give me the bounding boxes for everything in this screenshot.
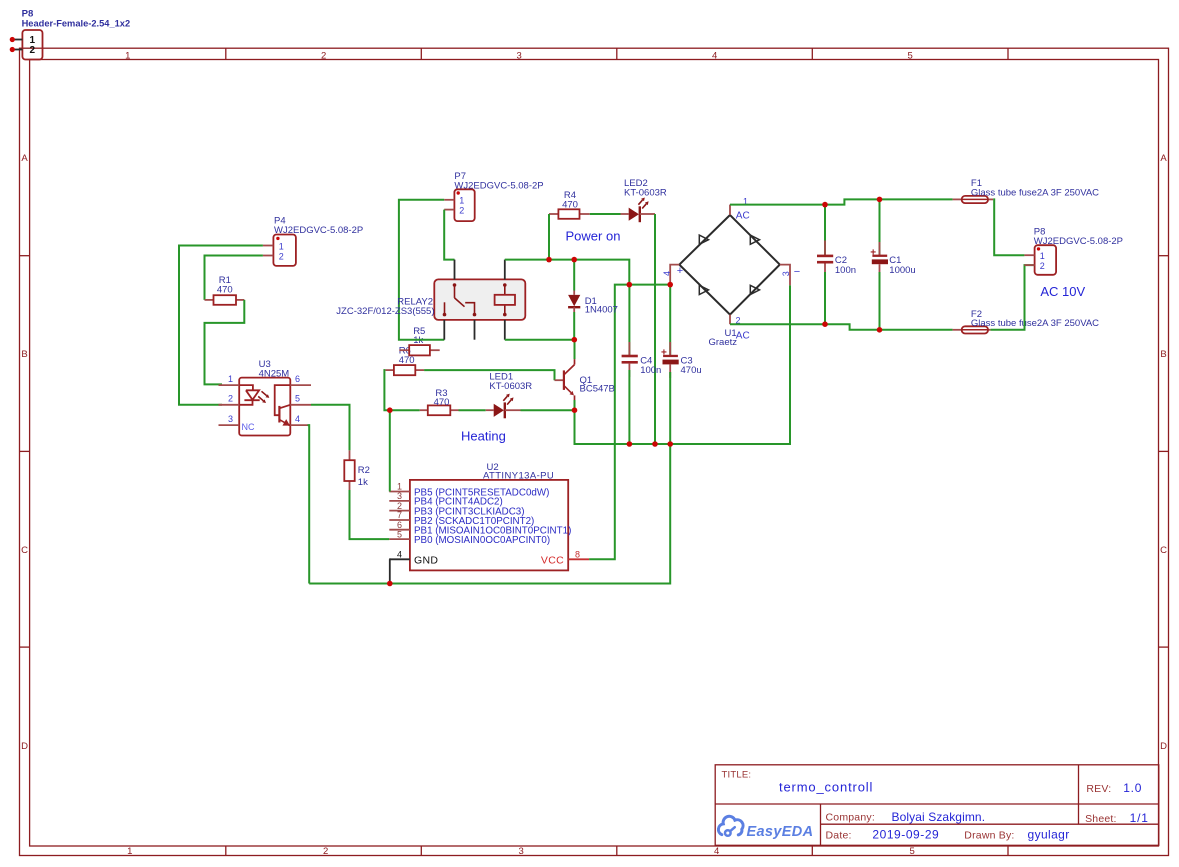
junction D1/VCC rail (571, 257, 577, 263)
U3 phototransistor (275, 385, 291, 425)
junction C2 bottom (822, 321, 828, 327)
svg-text:2: 2 (30, 45, 36, 56)
svg-text:1000u: 1000u (889, 265, 915, 276)
junction C3 top / bridge + (667, 282, 673, 288)
connector P4 (273, 215, 363, 266)
svg-text:1k: 1k (358, 477, 368, 488)
svg-text:2: 2 (321, 50, 326, 61)
junction C4 top / VCC rail (627, 282, 633, 288)
U2 pin 7 PB2 (389, 510, 534, 527)
svg-text:Graetz: Graetz (709, 337, 738, 348)
svg-text:7: 7 (397, 510, 402, 520)
junction C3 bottom / GND rails (667, 441, 673, 447)
U2 pin 4 GND (389, 550, 438, 567)
svg-text:−: − (794, 266, 800, 278)
svg-text:WJ2EDGVC-5.08-2P: WJ2EDGVC-5.08-2P (1034, 236, 1123, 247)
svg-text:TITLE:: TITLE: (722, 770, 752, 781)
wire R6 to junction (384, 370, 389, 410)
wire U3.5 to R2 (311, 405, 350, 451)
svg-text:ATTINY13A-PU: ATTINY13A-PU (483, 470, 554, 481)
U1 pin 4 + output (662, 265, 683, 285)
svg-text:2: 2 (323, 846, 328, 857)
pin 2 of P7 (444, 205, 464, 215)
U3 internal LED (239, 385, 260, 405)
svg-text:NC: NC (242, 422, 255, 432)
svg-text:470u: 470u (681, 365, 702, 376)
svg-text:Header-Female-2.54_1x2: Header-Female-2.54_1x2 (22, 19, 131, 29)
svg-text:3: 3 (781, 271, 791, 276)
MCU U2 ATTINY13A-PU (410, 462, 568, 570)
junction C4 bottom / GND rail (627, 441, 633, 447)
svg-text:5: 5 (397, 529, 402, 539)
svg-text:C: C (1160, 545, 1167, 556)
svg-text:2: 2 (1040, 261, 1045, 271)
svg-text:8: 8 (575, 550, 580, 560)
pin 1 of P4 (263, 241, 284, 251)
svg-text:KT-0603R: KT-0603R (489, 381, 532, 392)
U1 pin 3 - output (780, 265, 800, 286)
wire junction to R3 (390, 409, 420, 411)
junction C1 top (877, 197, 883, 203)
optocoupler U3 4N25M (239, 359, 290, 435)
relay NC contact (443, 302, 447, 316)
pin 1 of right P8 (1024, 251, 1044, 261)
relay pin top-left (454, 260, 456, 280)
connector P8 (Header-Female-2.54_1x2) (22, 8, 131, 59)
transistor Q1 BC547B (555, 359, 615, 400)
capacitor C3 470u electrolytic (661, 285, 702, 444)
pin 2 of P8 (10, 45, 36, 56)
resistor R6 470 (385, 346, 424, 376)
wire U2.4 GND down (388, 559, 391, 583)
svg-text:A: A (21, 153, 28, 164)
resistor R3 470 (420, 388, 459, 415)
svg-text:1.0: 1.0 (1123, 781, 1142, 795)
svg-text:1: 1 (127, 846, 132, 857)
connector P7 (454, 171, 543, 221)
svg-text:470: 470 (399, 355, 415, 366)
U3 pin 3 (NC) (219, 414, 255, 432)
svg-text:Glass tube fuse2A 3F 250VAC: Glass tube fuse2A 3F 250VAC (971, 318, 1099, 329)
svg-text:100n: 100n (835, 265, 856, 276)
relay pin bottom-middle (474, 320, 476, 340)
junction R4/VCC rail (546, 257, 552, 263)
svg-text:Drawn By:: Drawn By: (964, 830, 1014, 842)
net label Heating (461, 429, 506, 444)
svg-text:Glass tube fuse2A 3F 250VAC: Glass tube fuse2A 3F 250VAC (971, 187, 1099, 198)
pin 1 of P7 (444, 196, 464, 206)
junction R6/R3/U2.1 (387, 407, 393, 413)
U2 pin 8 VCC (541, 550, 589, 567)
wire P4.2 to R1 (205, 256, 263, 300)
capacitor C2 100n (817, 205, 856, 325)
svg-text:3: 3 (397, 491, 402, 501)
svg-text:+: + (677, 265, 683, 277)
resistor R1 470 (205, 275, 245, 305)
net label Power on (566, 229, 621, 244)
relay coil (495, 283, 515, 316)
wire relay coil bottom to D1 (505, 339, 575, 341)
U1 pin 2 AC bottom (730, 315, 750, 342)
U3 pin 5 (290, 394, 311, 405)
U3 pin 2 (219, 394, 240, 405)
svg-text:KT-0603R: KT-0603R (624, 187, 667, 198)
svg-text:5: 5 (908, 50, 913, 61)
pin 2 of right P8 (1024, 261, 1044, 271)
junction C1 bottom (877, 327, 883, 333)
svg-text:Power on: Power on (566, 229, 621, 244)
svg-text:WJ2EDGVC-5.08-2P: WJ2EDGVC-5.08-2P (274, 225, 363, 236)
svg-text:1: 1 (125, 50, 130, 61)
wire U3.4 to GND rail (308, 425, 310, 583)
bridge rectifier U1 Graetz (679, 215, 780, 348)
svg-text:JZC-32F/012-ZS3(555): JZC-32F/012-ZS3(555) (336, 306, 434, 317)
relay contact armature (453, 283, 477, 316)
U1 pin 1 AC top (730, 196, 750, 221)
wire R3 to LED1 (459, 409, 486, 411)
U2 pin 3 PB4 (389, 491, 502, 508)
svg-text:100n: 100n (640, 365, 661, 376)
wire P7.2 to relay common pin (444, 210, 454, 260)
wire emitter junction to GND rail (575, 285, 791, 444)
svg-text:PB0 (MOSIAIN0OC0APCINT0): PB0 (MOSIAIN0OC0APCINT0) (414, 535, 550, 546)
LED LED1 KT-0603R (486, 372, 533, 419)
U2 pin 2 PB3 (389, 501, 524, 518)
pin 1 of P8 (10, 35, 36, 46)
svg-text:3: 3 (518, 846, 523, 857)
wire U2.8 VCC up (589, 285, 670, 560)
svg-text:470: 470 (434, 397, 450, 408)
svg-text:4: 4 (295, 414, 300, 424)
wire F1 to P8.1 (993, 199, 1024, 255)
svg-text:REV:: REV: (1086, 783, 1111, 795)
svg-text:Company:: Company: (826, 811, 875, 823)
svg-text:EasyEDA: EasyEDA (747, 824, 814, 840)
svg-text:gyulagr: gyulagr (1028, 828, 1070, 842)
svg-text:BC547B: BC547B (580, 384, 615, 395)
net label AC 10V (1040, 284, 1085, 299)
wire P4.1 to U3.2 (179, 246, 263, 405)
relay pin bottom-left NC (443, 320, 445, 340)
svg-text:D: D (21, 741, 28, 752)
wire junction to U2.1 (389, 410, 391, 491)
svg-text:termo_controll: termo_controll (779, 780, 873, 795)
svg-text:1: 1 (459, 196, 464, 206)
relay pin top-right coil (504, 260, 506, 280)
junction U2 GND (387, 581, 393, 587)
svg-text:1: 1 (228, 374, 233, 384)
svg-text:3: 3 (228, 414, 233, 424)
svg-text:VCC: VCC (541, 554, 564, 566)
wire AC bottom rail: U1.2 to F2 (730, 324, 953, 330)
wire D1 anode to VCC rail (573, 260, 575, 291)
svg-text:R2: R2 (358, 465, 370, 476)
wire R4 to LED2 (590, 213, 621, 215)
wire D1 cathode to coil rail (573, 312, 575, 340)
junction D1/coil/Q1 (572, 337, 578, 343)
svg-text:WJ2EDGVC-5.08-2P: WJ2EDGVC-5.08-2P (454, 180, 543, 191)
fuse F2 Glass tube fuse2A 3F 250VAC (953, 309, 1100, 334)
svg-text:4N25M: 4N25M (259, 368, 290, 379)
wire R1 to U3.1 (205, 300, 245, 385)
junction C2 top (822, 202, 828, 208)
svg-text:3: 3 (516, 50, 521, 61)
junction Q1 emitter / LED1 (572, 407, 578, 413)
fuse F1 Glass tube fuse2A 3F 250VAC (953, 178, 1100, 203)
junction LED2 / GND rail (652, 441, 658, 447)
wire F2 to P8.2 (991, 265, 1035, 330)
svg-text:5: 5 (295, 394, 300, 404)
svg-text:D: D (1160, 741, 1167, 752)
svg-text:GND: GND (414, 554, 438, 566)
U2 pin 1 PB5 (389, 482, 549, 499)
svg-text:Bolyai Szakgimn.: Bolyai Szakgimn. (892, 810, 986, 824)
U3 light arrows (258, 391, 269, 403)
wire R6 to Q1 base (424, 370, 554, 380)
svg-text:1N4007: 1N4007 (585, 305, 618, 316)
svg-text:AC: AC (736, 331, 750, 342)
svg-text:A: A (1160, 153, 1167, 164)
relay pin bottom-right coil (504, 320, 506, 340)
LED LED2 KT-0603R (621, 178, 667, 222)
svg-text:2: 2 (228, 394, 233, 404)
diode D1 1N4007 (568, 291, 618, 316)
U2 pin 6 PB1 (389, 520, 571, 537)
wire Q1 emitter down (574, 400, 576, 410)
wire LED1 to Q1 emitter junction (521, 409, 575, 411)
pin 2 of P4 (263, 251, 284, 261)
svg-text:C: C (21, 545, 28, 556)
svg-text:2019-09-29: 2019-09-29 (872, 828, 939, 842)
resistor R2 1k (vertical) (344, 450, 370, 490)
resistor R5 1k (399, 326, 439, 355)
svg-text:5: 5 (910, 846, 915, 857)
U3 pin 6 (290, 374, 311, 385)
U3 pin 1 (219, 374, 240, 385)
svg-text:B: B (1160, 349, 1166, 360)
svg-text:B: B (21, 349, 27, 360)
svg-text:Sheet:: Sheet: (1085, 813, 1117, 825)
wire Q1 collector up (574, 340, 576, 359)
svg-text:Date:: Date: (826, 830, 852, 842)
wire AC top rail: U1.1 to F1 to P8.1 (730, 199, 953, 204)
wire LED2 to GND rail (654, 214, 656, 444)
svg-text:AC 10V: AC 10V (1040, 284, 1085, 299)
svg-text:4: 4 (397, 550, 402, 560)
wire GND rail (309, 444, 670, 584)
svg-text:AC: AC (736, 211, 750, 222)
svg-text:1: 1 (279, 241, 284, 251)
wire R4 left to VCC rail (548, 214, 550, 260)
U3 pin 4 (290, 414, 307, 425)
wire relay coil to VCC rail (505, 260, 630, 285)
svg-text:470: 470 (217, 285, 233, 296)
connector P8 (right, WJ2EDGVC-5.08-2P) (1034, 227, 1123, 275)
svg-text:4: 4 (712, 50, 717, 61)
svg-text:470: 470 (562, 200, 578, 211)
svg-text:6: 6 (295, 374, 300, 384)
resistor R4 470 (549, 190, 590, 219)
U2 pin 5 PB0 (389, 529, 550, 546)
capacitor C4 100n (622, 285, 662, 444)
svg-text:2: 2 (279, 251, 284, 261)
wire P7.1 to relay NC pin (399, 200, 444, 340)
svg-text:1/1: 1/1 (1130, 811, 1149, 825)
wire R2 to U2.5 (350, 490, 390, 539)
svg-text:1: 1 (1040, 251, 1045, 261)
svg-text:2: 2 (459, 205, 464, 215)
svg-text:Heating: Heating (461, 429, 506, 444)
svg-text:4: 4 (714, 846, 719, 857)
relay RELAY2 JZC-32F/012-ZS3(555) (336, 279, 525, 320)
svg-text:4: 4 (662, 271, 672, 276)
capacitor C1 1000u electrolytic (870, 199, 915, 329)
